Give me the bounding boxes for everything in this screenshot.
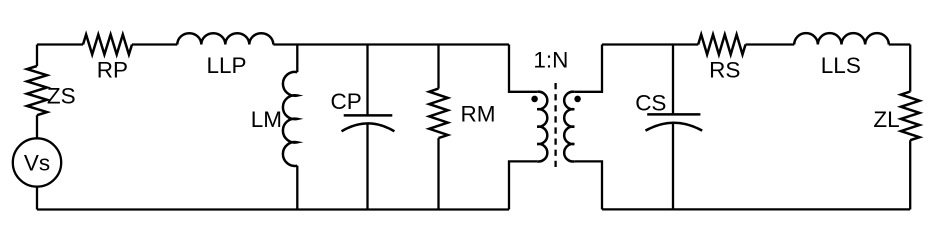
wire ZS to Vs [36,115,38,138]
svg-text:RP: RP [97,57,128,82]
wire RS to LLS [746,43,795,45]
svg-text:ZL: ZL [873,107,899,132]
wire RM branch bottom [437,138,439,209]
wire CS branch top [672,45,674,115]
svg-text:CP: CP [331,89,362,114]
wire primary rail down to winding lead [509,45,537,92]
inductor LLS [794,33,889,44]
wire top rail secondary (to RS) [602,43,698,45]
svg-text:1:N: 1:N [533,47,568,72]
svg-text:LM: LM [251,107,282,132]
resistor RP [83,35,132,55]
transformer core dashed line [554,83,556,170]
wire right rail top [909,45,911,92]
inductor LLP [177,33,273,44]
resistor ZS [27,66,47,115]
svg-text:RM: RM [461,101,496,126]
wire LLP to transformer primary rail [273,43,509,45]
wire CP branch bottom [366,123,368,209]
svg-text:LLS: LLS [821,53,861,78]
polarity dot secondary [574,96,581,103]
wire right rail bottom [909,140,911,209]
svg-text:LLP: LLP [207,53,247,78]
wire LM branch bottom [296,166,298,210]
wire LLS to right corner [889,43,910,45]
transformer primary winding [537,92,547,162]
wire LM branch top [296,45,298,73]
svg-text:CS: CS [635,90,666,115]
wire bottom rail right section [602,208,910,210]
capacitor CP [342,115,395,131]
wire secondary winding bottom lead [574,161,602,209]
inductor LM [283,72,297,166]
wire left rail top (corner to ZS) [36,45,38,67]
wire RM branch top [437,45,439,89]
wire CS branch bottom [672,123,674,210]
wire CP branch top [366,45,368,116]
wire Vs to bottom rail [36,187,38,210]
wire top rail left (source corner to RP) [37,43,83,45]
resistor RS [698,35,745,55]
wire primary winding bottom lead [509,161,537,209]
svg-text:ZS: ZS [47,84,76,109]
wire RP to LLP [132,43,177,45]
polarity dot primary [531,96,538,103]
resistor RM [429,89,448,139]
wire bottom rail left section [37,208,509,210]
resistor ZL [901,92,920,141]
svg-text:Vs: Vs [24,151,50,176]
capacitor CS [646,114,703,130]
svg-text:RS: RS [709,58,740,83]
wire secondary rail down to winding lead [574,45,602,92]
source Vs [13,138,61,186]
transformer secondary winding [564,92,574,162]
